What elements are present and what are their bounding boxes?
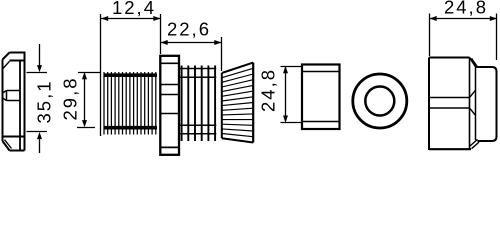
svg-text:12,4: 12,4: [112, 0, 156, 18]
svg-text:24,8: 24,8: [258, 68, 279, 112]
clamping cone (claw): [222, 63, 253, 143]
seal ring front view: [353, 74, 407, 128]
dimension 24,8 (cap nut length): [430, 14, 497, 61]
dimension 35,1 (height of locknut): [27, 44, 48, 153]
entry thread (vertical hatching): [104, 72, 158, 135]
cap nut side view (right part): [429, 58, 497, 151]
dimension 24,8 (seal height): [281, 67, 302, 123]
svg-text:22,6: 22,6: [167, 19, 211, 40]
dimension 22,6 (body length from flange): [160, 37, 222, 71]
cap thread (coarse thread right of flange): [180, 66, 216, 142]
seal sleeve side view: [302, 65, 340, 130]
svg-text:35,1: 35,1: [34, 79, 55, 123]
dimension 29,8 (thread diameter): [77, 73, 100, 128]
svg-text:24,8: 24,8: [444, 0, 488, 18]
svg-text:29,8: 29,8: [60, 76, 81, 120]
hex flange (body middle): [160, 56, 179, 155]
locknut side view (left part): [3, 52, 25, 151]
dimension 12,4 (entry thread length): [101, 14, 161, 136]
